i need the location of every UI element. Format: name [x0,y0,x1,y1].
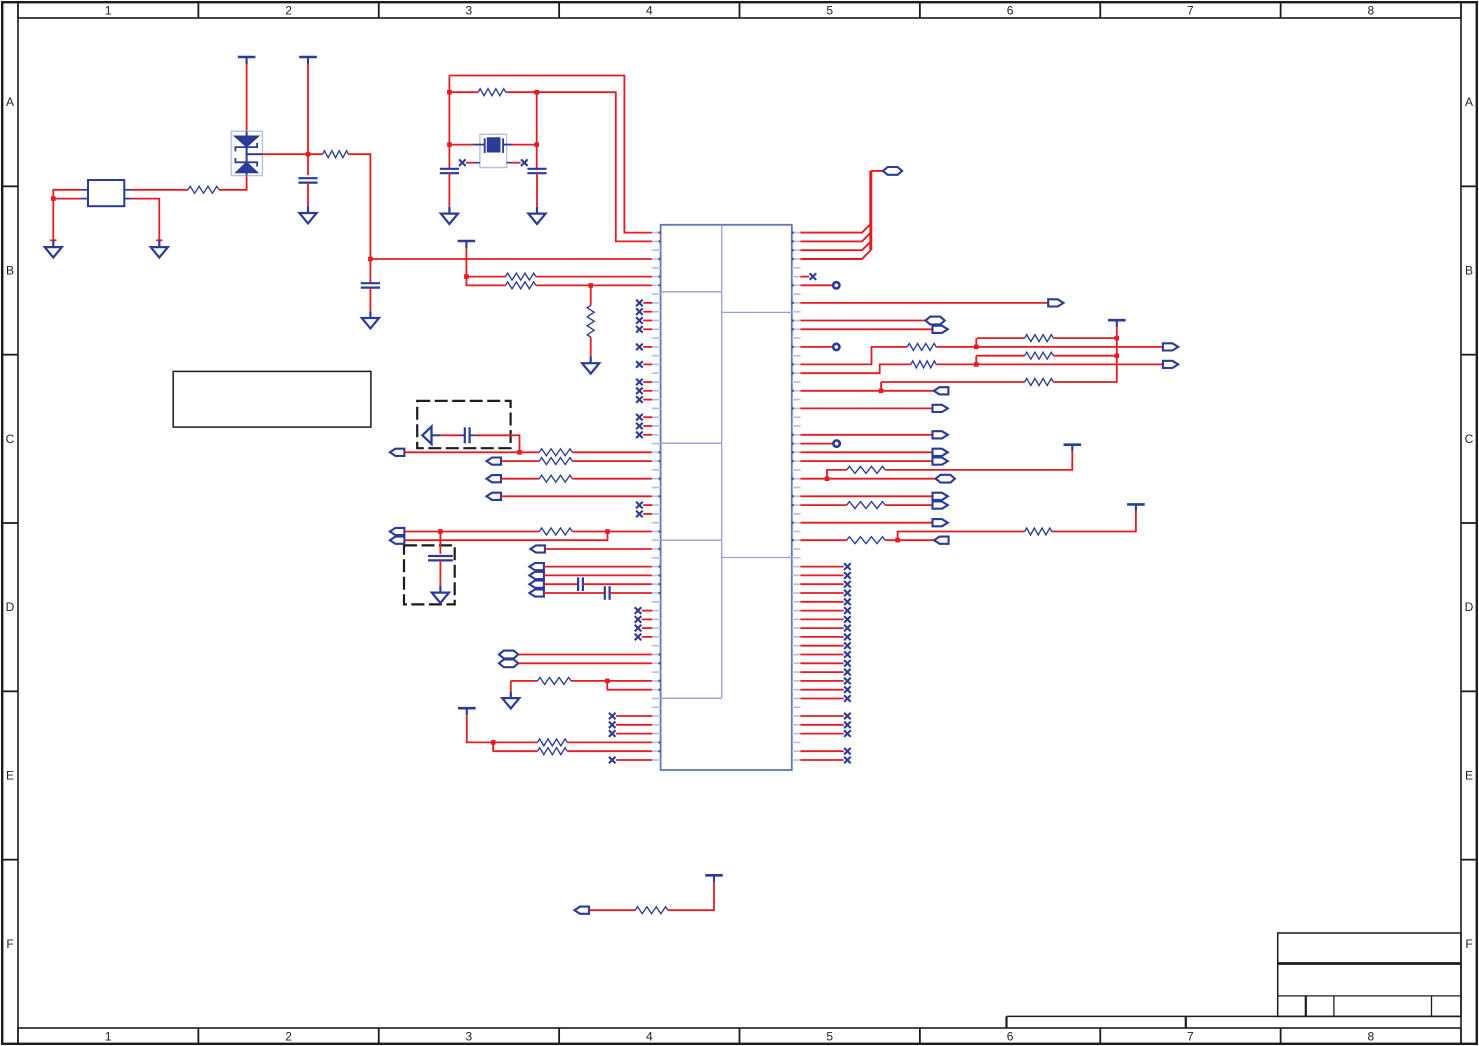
no-connect U1 right pin row 51 wire [801,680,844,682]
svg-text:F: F [6,937,13,951]
TVS diode D1 center tap [247,153,263,155]
capacitor C5 [465,427,470,443]
wire R6 top [590,285,592,305]
no-connect U1 left pin row 44 wire [642,618,652,620]
no-connect U1 left pin row 55 [609,713,616,720]
crystal Y1 case pin right [507,162,513,164]
resistor R12 [538,739,568,746]
crystal Y1 left electrode [484,138,486,153]
crystal Y1 case pin left [475,162,480,164]
no-connect U1 right pin row 60 wire [801,759,844,761]
title block bottom strip [1007,1016,1462,1028]
no-connect U1 right pin row 53 [844,695,851,702]
wire k31 to R20 [801,504,847,506]
capacitor C5 left lead [460,434,465,436]
svg-text:F: F [1465,937,1472,951]
no-connect U1 right pin row 55 [844,713,851,720]
wire crystal right column [536,92,538,169]
no-connect U1 right pin row 41 [844,590,851,597]
port flag P34 [933,519,948,526]
no-connect U1 right pin row 47 [844,642,851,649]
no-connect U1 left pin row 22 [636,423,643,430]
junction TVS-VCC node [306,152,311,157]
junction crystal right rail [534,90,539,95]
resistor R19 [847,466,886,473]
wire pullup row2 [976,355,1024,357]
wire SWD bus top [871,170,883,172]
title block outline [1278,933,1461,1016]
wire R3 to U1 XTAL pin [506,92,652,241]
crystal Y1 right lead [503,144,512,146]
ground G7 [582,356,599,373]
no-connect crystal left [459,159,466,166]
svg-text:1: 1 [105,1029,112,1043]
antenna port symbol [422,427,431,444]
no-connect U1 left pin row 15 wire [643,363,652,365]
no-connect crystal right [521,159,528,166]
net flag P20 wire [801,320,926,322]
no-connect U1 left pin row 11 wire [643,328,652,330]
no-connect U1 left pin row 13 [636,344,643,351]
testpoint TP2 [833,344,839,350]
no-connect U1 right pin row 44 wire [801,618,844,620]
wire gnd to R11 [511,680,538,682]
port flag P9 [390,537,405,544]
connector J1 body [88,180,124,206]
resistor R6 [587,306,594,338]
svg-text:B: B [1465,264,1473,278]
wire R21 tap [898,532,1025,541]
wire k18 riser [880,382,882,391]
crystal Y1 package box [480,134,507,167]
ground G2 [151,240,168,257]
svg-text:1: 1 [105,3,112,17]
junction P9 merge [605,529,610,534]
TVS diode D1 center link [246,147,248,163]
crystal Y1 left lead [474,144,485,146]
TVS diode D1 package box [231,131,262,175]
wire pullup row1 [977,337,1025,339]
connector J1 pin leads [80,190,131,199]
svg-text:5: 5 [826,3,833,17]
port flag P14 [529,589,544,596]
no-connect U1 left pin row 21 wire [643,416,652,418]
no-connect U1 right pin row 48 [844,651,851,658]
crystal Y1 right electrode [502,138,504,153]
wire R14 tap riser [975,338,977,347]
power VCC P3 [458,241,476,248]
dashed box DNP region 1 [417,401,510,448]
no-connect U1 left pin row 18 wire [643,390,652,392]
port flag P37 [575,907,590,914]
notes box [173,371,371,427]
resistor R15 [1025,352,1054,359]
no-connect U1 left pin row 22 wire [643,425,652,427]
TVS diode D1 top cathode bar [235,143,257,152]
junction R14 tap [974,345,979,350]
IC U1 pin stubs [652,232,801,761]
wire TVS tap to node [262,153,322,155]
crystal Y1 body [487,138,500,152]
wire P10 to U1 [545,548,652,550]
title block cell dividers [1306,996,1432,1017]
capacitor C6 [428,556,453,560]
no-connect U1 right pin row 44 [844,616,851,623]
TVS diode D1 top lead [246,131,248,136]
IC U1 internal dividers [661,225,792,699]
wire P26 net [801,407,933,409]
wire VCC22 riser [1053,327,1117,382]
wire P5 to R8 [501,460,539,462]
resistor R8 [539,458,572,465]
wire C3 to ground [448,173,450,207]
no-connect U1 right pin row 45 [844,625,851,632]
no-connect U1 right pin row 41 wire [801,592,844,594]
wire testpoint TP1 [801,284,836,286]
port flag P19 [1048,299,1063,306]
no-connect U1 right pin row 57 [844,730,851,737]
junction crystal left 2 [447,142,452,147]
no-connect U1 right pin row 39 wire [801,574,844,576]
resistor R11 [538,677,572,684]
no-connect U1 right pin row 40 [844,581,851,588]
no-connect U1 right pin row 51 [844,678,851,685]
svg-text:3: 3 [466,3,473,17]
resistor R1 [188,186,219,193]
testpoint TP1 [833,282,839,288]
testpoint TP3 [833,440,839,446]
power VCC P1 [238,57,256,64]
no-connect U1 left pin row 13 wire [643,346,652,348]
capacitor C2 [361,283,380,287]
wire SWD bus riser [869,171,872,250]
crystal Y1 case pin left wire [466,162,475,164]
port flag P11 [529,563,544,570]
TVS diode D1 top anode triangle [235,136,259,147]
wire VCC35 riser [1052,511,1136,531]
svg-text:5: 5 [826,1029,833,1043]
wire VCC to TVS top [246,64,248,131]
wire P14 to C8 [544,592,605,594]
no-connect U1 right pin row 42 [844,599,851,606]
power VCC P30 [1064,445,1082,452]
wire P32 net [801,495,933,497]
junction k35 tap [895,538,900,543]
svg-text:E: E [1465,769,1473,783]
resistor R9 [539,475,572,482]
junction crystal left 1 [447,90,452,95]
wire R1 to TVS D1 [219,176,247,190]
no-connect U1 right pin row 53 wire [801,698,844,700]
resistor R14 [1025,335,1054,342]
TVS diode D1 bottom lead [246,173,248,176]
port flag P32 [933,493,948,500]
svg-text:2: 2 [285,1029,292,1043]
junction VDD rail [368,257,373,262]
wire R23 to VCC [668,882,714,910]
wire P4 to R7 [404,451,539,453]
resistor R17 [907,343,936,350]
net flag P20 [926,317,945,325]
no-connect U1 right pin row 5 wire [801,276,810,278]
capacitor C8 [605,586,610,600]
wire P19 net [801,302,1049,304]
gnd pin tick 1 [50,239,56,241]
svg-text:3: 3 [466,1029,473,1043]
no-connect U1 right pin row 47 wire [801,645,844,647]
no-connect U1 left pin row 9 wire [643,311,652,313]
wire C2 to ground [369,288,371,312]
wire crystal row right [513,144,537,146]
wire k28 net [801,478,936,480]
no-connect U1 left pin row 45 wire [642,627,652,629]
resistor R4 [506,273,536,280]
ground G5 [441,207,458,224]
wire C6 drop [439,532,441,554]
svg-text:8: 8 [1367,3,1374,17]
wire crystal top rail [449,76,651,233]
wire R5 to U1 [536,284,652,286]
wire R7 to U1 [572,451,652,453]
port flag P29 [933,458,948,465]
junction k18 tap [879,389,884,394]
ground G6 [528,207,545,224]
junction C6 tap [438,529,443,534]
wire R20 to flag P33 [885,504,932,506]
wire VCC17 down [467,715,538,742]
no-connect U1 right pin row 59 [844,748,851,755]
port flag P25 [934,387,949,394]
no-connect U1 right pin row 43 [844,607,851,614]
svg-text:D: D [1465,600,1474,614]
junction R15 tap [974,362,979,367]
resistor R7 [539,449,572,456]
no-connect U1 right pin row 45 wire [801,627,844,629]
port flag P12 [529,572,544,579]
TVS diode D1 bottom cathode bar [235,158,257,167]
capacitor C7 [578,577,583,591]
wire crystal row left [449,144,473,146]
no-connect U1 right pin row 48 wire [801,654,844,656]
junction crystal right 2 [534,142,539,147]
wire R22 to flag P36 [885,539,934,541]
svg-text:7: 7 [1187,3,1194,17]
port flag P7 [487,493,502,500]
resistor R3 [478,89,505,96]
no-connect U1 left pin row 60 [609,757,616,764]
wire testpoint TP2 [801,346,836,348]
wire R15 to bus [1053,355,1117,357]
no-connect U1 left pin row 9 [636,308,643,315]
no-connect U1 right pin row 55 wire [801,715,844,717]
wire C5 to node [475,435,520,452]
no-connect U1 right pin row 56 [844,722,851,729]
port flag P33 [933,502,948,509]
wire P21 net [801,328,933,330]
no-connect U1 left pin row 46 [635,634,642,641]
resistor R23 [635,907,668,914]
no-connect U1 right pin row 39 [844,572,851,579]
wire SWD bus fan [801,224,871,259]
no-connect U1 left pin row 43 wire [642,610,652,612]
resistor R10 [539,528,572,535]
resistor R22 [847,537,886,544]
power VCC P35 [1127,504,1145,511]
TVS diode D1 bottom anode triangle [236,162,257,172]
junction boot pair [605,679,610,684]
resistor R21 [1025,528,1052,535]
no-connect U1 left pin row 44 [635,616,642,623]
wire P6 to R9 [501,478,539,480]
wire R8 to U1 [572,460,652,462]
wire R9 to U1 [572,478,652,480]
wire antenna to C5 [440,434,459,436]
resistor R18 [911,361,936,368]
svg-text:C: C [1465,432,1474,446]
junction at gnd rail [51,196,56,201]
junction VCC3 split [464,274,469,279]
title block row divider [1278,995,1461,997]
port flag P24 [1163,361,1178,368]
resistor R5 [506,282,536,289]
no-connect U1 left pin row 55 wire [616,715,652,717]
wire VCC17 branch2 [493,742,537,751]
junction k28 tap [825,476,830,481]
no-connect U1 right pin row 40 wire [801,583,844,585]
svg-text:4: 4 [646,3,653,17]
no-connect U1 right pin row 59 wire [801,750,844,752]
no-connect U1 left pin row 60 wire [616,759,652,761]
net flag P31 [936,475,955,483]
wire C4 to ground [536,173,538,207]
wire C6 to ground [439,560,441,585]
IC U1 body outline [661,225,792,770]
wire R15 tap riser [975,356,977,365]
port flag P10 [530,545,545,552]
no-connect U1 left pin row 31 wire [643,504,652,506]
no-connect U1 right pin row 52 wire [801,689,844,691]
no-connect U1 left pin row 8 [636,300,643,307]
no-connect U1 left pin row 57 [609,730,616,737]
svg-text:A: A [6,95,14,109]
no-connect U1 left pin row 10 [636,317,643,324]
no-connect U1 left pin row 21 [636,414,643,421]
wire VCC2 down to node [307,64,309,175]
ground G4 [362,311,379,328]
wire J1 pin4 to ground [132,199,159,241]
wire R14 to bus [1053,337,1117,339]
no-connect U1 right pin row 52 [844,686,851,693]
wire VCC30 riser [885,452,1072,470]
wire P8 to R10 [404,531,539,533]
wire P28 net [801,451,933,453]
wire P27 net [801,434,933,436]
no-connect U1 left pin row 56 wire [616,724,652,726]
no-connect U1 left pin row 19 wire [643,399,652,401]
no-connect U1 right pin row 60 [844,757,851,764]
capacitor C4 [527,169,546,173]
no-connect U1 right pin row 5 [810,273,817,280]
title block thick divider [1278,962,1461,965]
antenna lead [432,434,441,436]
wire P12 to U1 [544,574,652,576]
resistor R13 [538,748,568,755]
junction pullup 1 [1115,336,1120,341]
no-connect U1 left pin row 23 wire [643,434,652,436]
ground G3 [299,206,316,223]
wire P7 to U1 [501,495,652,497]
no-connect U1 right pin row 50 wire [801,671,844,673]
power VCC P38 [705,875,723,882]
svg-text:E: E [6,769,14,783]
port flag P21 [933,326,948,333]
ground G9 [502,691,519,708]
svg-text:4: 4 [646,1029,653,1043]
wire P34 net [801,522,933,524]
wire k15 riser [801,347,908,365]
wire C7 to U1 [583,583,652,585]
net flag P18 [883,167,902,175]
no-connect U1 left pin row 56 [609,722,616,729]
no-connect U1 right pin row 43 wire [801,610,844,612]
wire J1 pin3 to R1 [132,189,188,191]
port flag P4 [390,449,405,456]
wire J1 pin2 branch [53,198,80,200]
wire J1 pin1 to gnd rail [53,190,80,241]
svg-text:D: D [6,600,15,614]
svg-text:2: 2 [285,3,292,17]
wire pullup row3 [881,381,1025,383]
port flag P23 [1163,343,1178,350]
no-connect U1 left pin row 18 [636,388,643,395]
wire C8 to U1 [610,592,652,594]
svg-text:A: A [1465,95,1473,109]
capacitor C3 [440,169,459,173]
no-connect U1 left pin row 43 [635,607,642,614]
wire VDD rail to U1 pin [370,258,651,260]
no-connect U1 right pin row 42 wire [801,601,844,603]
svg-text:7: 7 [1187,1029,1194,1043]
net flag P15 [499,651,518,659]
resistor R2 [323,151,349,158]
wire P13 to C7 [544,583,578,585]
wire R11 to U1 [571,680,652,682]
no-connect U1 left pin row 17 [636,379,643,386]
dashed box DNP region 2 [404,545,455,604]
ground G8 [432,586,449,603]
port flag P8 [390,528,405,535]
no-connect U1 right pin row 46 [844,634,851,641]
wire P11 to U1 [544,566,652,568]
no-connect U1 right pin row 50 [844,669,851,676]
svg-text:6: 6 [1007,3,1014,17]
wire crystal left column [448,76,450,169]
port flag P27 [933,431,948,438]
wire R6 to ground [590,337,592,356]
power VCC P22 [1108,320,1126,327]
port flag P28 [933,449,948,456]
junction VCC17 split [491,740,496,745]
wire R4 to U1 [536,276,652,278]
capacitor C5 right lead [470,434,475,436]
port flag P36 [934,537,949,544]
junction dashed-cap tap [517,450,522,455]
wire testpoint TP3 [801,443,837,445]
no-connect U1 left pin row 57 wire [616,733,652,735]
wire rail to resistor R3 [449,91,478,93]
wire P37 to R23 [589,909,635,911]
wire k18 net [801,390,934,392]
